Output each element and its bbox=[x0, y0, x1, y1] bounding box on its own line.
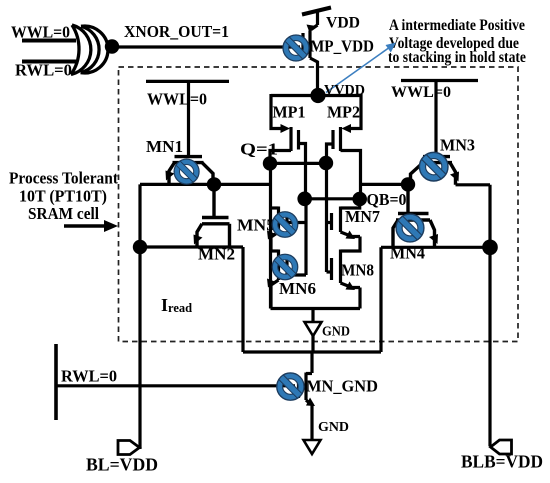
XNOR gate U1 bbox=[71, 25, 108, 75]
wire WWL input to XNOR bbox=[22, 39, 76, 43]
prohibition icon on MN1 bbox=[174, 159, 199, 184]
wire GND stem bbox=[311, 309, 314, 353]
node dot B (MP2 gate to Q line) bbox=[319, 156, 333, 170]
wire QB row y184 (MP2 drain column to E) bbox=[361, 183, 409, 186]
dashed box PT10T SRAM cell boundary bbox=[119, 67, 519, 342]
node XNOR output dot bbox=[105, 39, 119, 53]
node dot C (MP1 gate to QB line) bbox=[297, 192, 312, 207]
wire WWL right T-bar bbox=[401, 79, 478, 82]
ground symbol (cell) bbox=[305, 322, 322, 336]
transistor MN_GND bbox=[299, 352, 313, 440]
wire Iread column left bbox=[241, 247, 244, 352]
svg-text:RWL=0: RWL=0 bbox=[61, 367, 117, 386]
svg-text:MP1: MP1 bbox=[273, 103, 306, 122]
transistor MN8 bbox=[327, 250, 361, 309]
node Q dot A bbox=[263, 156, 277, 170]
wire XNOR_OUT to MP_VDD gate bbox=[118, 45, 300, 48]
svg-text:10T (PT10T): 10T (PT10T) bbox=[19, 187, 107, 206]
transistor MN1 bbox=[169, 157, 213, 183]
wire MN4 row y247 bbox=[381, 246, 490, 249]
transistor MN3 bbox=[411, 157, 456, 185]
svg-text:to stacking in hold state: to stacking in hold state bbox=[388, 49, 526, 66]
svg-text:WWL=0: WWL=0 bbox=[147, 90, 207, 109]
wire cell bottom rail bbox=[271, 307, 361, 310]
node VVDD dot bbox=[310, 88, 325, 103]
wire WWL left T-bar bbox=[146, 80, 229, 83]
wire VVDD rail bbox=[271, 94, 362, 97]
transistor MP2 bbox=[327, 94, 362, 199]
svg-text:MN_GND: MN_GND bbox=[306, 377, 378, 396]
wire WWL left stem bbox=[187, 81, 190, 155]
transistor MN5 bbox=[271, 207, 307, 252]
annotation arrow to cell bbox=[64, 224, 107, 228]
svg-text:SRAM cell: SRAM cell bbox=[28, 204, 99, 223]
wire MN3 right to BLB column bbox=[456, 183, 491, 186]
svg-text:MP_VDD: MP_VDD bbox=[310, 37, 374, 56]
transistor MN2 bbox=[197, 184, 230, 247]
wire MN_GND rail bbox=[243, 350, 381, 353]
svg-text:MN3: MN3 bbox=[440, 136, 475, 155]
wire BL column bbox=[138, 184, 141, 449]
wire B down to MN7/MN8 gates bbox=[325, 163, 328, 272]
prohibition icon on MN_GND bbox=[277, 373, 304, 400]
wire Q column (A down to MN5 branch) bbox=[269, 163, 272, 309]
wire RWL bar bbox=[54, 344, 58, 420]
wire RWL input to XNOR bbox=[22, 60, 76, 64]
prohibition icon on MN4 bbox=[396, 214, 424, 242]
svg-text:VDD: VDD bbox=[326, 15, 360, 32]
svg-text:BL=VDD: BL=VDD bbox=[86, 455, 158, 475]
terminal BLB pentagon bbox=[491, 440, 512, 454]
node dot D (QB line to MP2 drain) bbox=[352, 192, 367, 207]
transistor MP_VDD bbox=[303, 11, 318, 96]
wire RWL row to MN_GND gate bbox=[56, 384, 295, 387]
ground symbol (bottom) bbox=[304, 440, 321, 454]
wire WWL right stem bbox=[434, 81, 437, 156]
wire MN2 row y247 to Iread column bbox=[140, 245, 243, 248]
node dot E (QB / MN3 / MN4 gate) bbox=[401, 177, 415, 191]
terminal BL pentagon bbox=[118, 441, 140, 455]
wire QB line C-D bbox=[305, 197, 360, 200]
prohibition icon on MN6 bbox=[272, 254, 297, 279]
prohibition icon on MN3 bbox=[419, 152, 448, 181]
annotation blue arrow to VVDD bbox=[326, 43, 396, 93]
svg-text:MP2: MP2 bbox=[327, 103, 360, 122]
svg-text:MN1: MN1 bbox=[146, 137, 183, 156]
node dot F (BLB junction) bbox=[482, 240, 498, 256]
power VDD bar bbox=[302, 8, 331, 15]
svg-text:GND: GND bbox=[322, 325, 350, 340]
transistor MP1 bbox=[270, 94, 306, 198]
svg-text:MN6: MN6 bbox=[279, 279, 316, 298]
wire Q line A-B bbox=[270, 162, 326, 165]
node dot BL-MN2 bbox=[133, 240, 147, 254]
wire Iread column right bbox=[379, 247, 382, 352]
prohibition icon on MP_VDD bbox=[283, 35, 309, 61]
svg-text:BLB=VDD: BLB=VDD bbox=[461, 452, 543, 472]
wire BLB column bbox=[488, 185, 491, 446]
svg-text:GND: GND bbox=[318, 420, 349, 435]
svg-text:MN8: MN8 bbox=[341, 261, 374, 280]
svg-text:WWL=0: WWL=0 bbox=[391, 84, 451, 101]
svg-text:Q=1: Q=1 bbox=[240, 140, 278, 159]
wire Q/BL row y184 bbox=[140, 183, 271, 186]
transistor MN6 bbox=[271, 250, 307, 309]
wire C down to MN5/MN6 gates bbox=[304, 199, 307, 275]
transistor MN4 bbox=[393, 184, 435, 247]
svg-text:MN7: MN7 bbox=[345, 207, 380, 226]
svg-text:Process Tolerant: Process Tolerant bbox=[9, 169, 118, 188]
svg-text:XNOR_OUT=1: XNOR_OUT=1 bbox=[124, 22, 229, 41]
node dot MN1-source / MN2 gate bbox=[207, 177, 221, 191]
transistor MN7 bbox=[327, 199, 361, 251]
prohibition icon on MN5 bbox=[272, 212, 297, 237]
svg-text:A intermediate Positive: A intermediate Positive bbox=[389, 17, 525, 34]
